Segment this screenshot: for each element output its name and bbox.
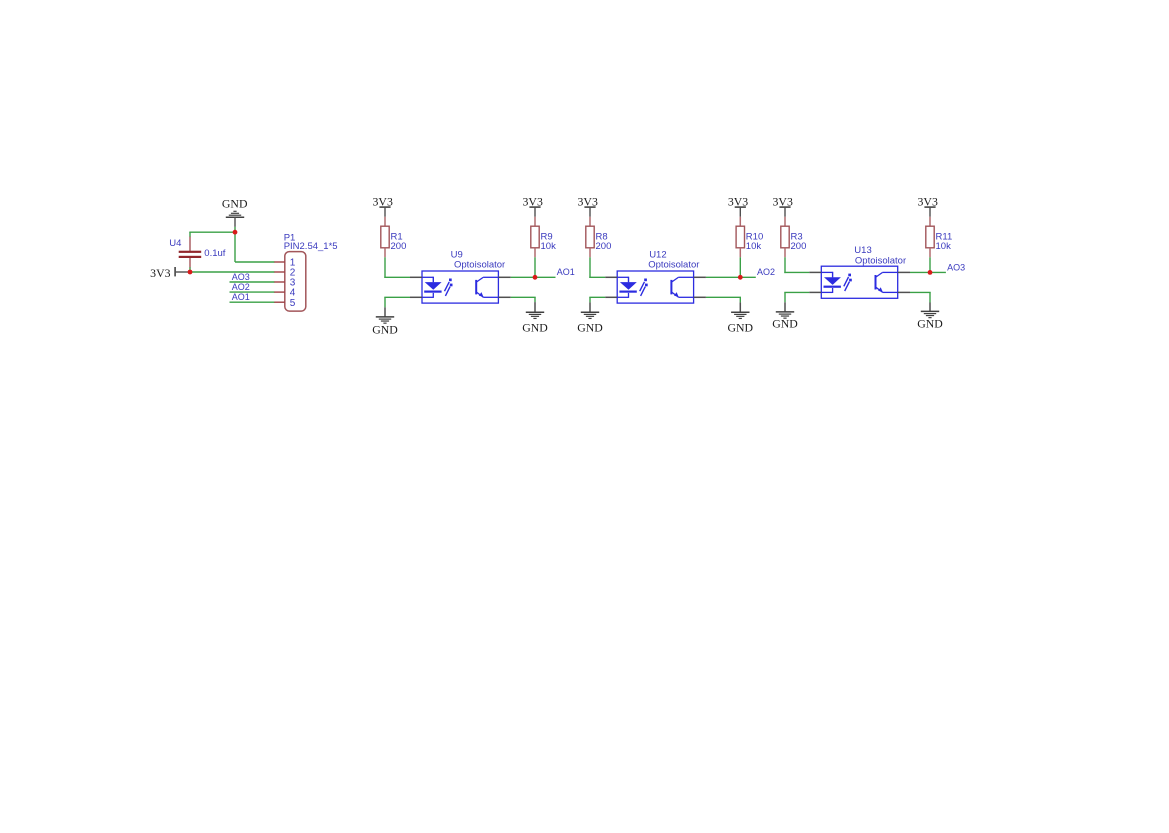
svg-text:10k: 10k: [746, 241, 762, 252]
svg-text:200: 200: [791, 241, 807, 252]
svg-text:3V3: 3V3: [728, 194, 748, 208]
svg-text:AO2: AO2: [757, 267, 775, 277]
svg-text:Optoisolator: Optoisolator: [648, 260, 699, 271]
svg-text:GND: GND: [772, 317, 798, 331]
svg-text:Optoisolator: Optoisolator: [454, 260, 505, 271]
svg-text:AO1: AO1: [557, 267, 575, 277]
svg-text:10k: 10k: [541, 241, 557, 252]
svg-text:AO3: AO3: [947, 263, 965, 273]
svg-text:3V3: 3V3: [918, 194, 938, 208]
svg-text:GND: GND: [222, 197, 248, 211]
svg-text:200: 200: [596, 241, 612, 252]
svg-text:GND: GND: [577, 321, 603, 335]
svg-text:3V3: 3V3: [523, 194, 543, 208]
svg-text:3V3: 3V3: [773, 194, 793, 208]
svg-text:GND: GND: [372, 322, 398, 336]
svg-text:0.1uf: 0.1uf: [204, 248, 225, 259]
svg-text:Optoisolator: Optoisolator: [855, 255, 906, 266]
svg-text:U4: U4: [169, 238, 181, 249]
svg-text:AO1: AO1: [232, 292, 250, 302]
svg-text:GND: GND: [917, 317, 943, 331]
svg-text:10k: 10k: [936, 241, 952, 252]
svg-text:PIN2.54_1*5: PIN2.54_1*5: [284, 241, 338, 252]
svg-text:U13: U13: [854, 245, 871, 256]
svg-text:AO3: AO3: [232, 272, 250, 282]
svg-text:GND: GND: [522, 321, 548, 335]
svg-text:200: 200: [391, 241, 407, 252]
svg-text:AO2: AO2: [232, 282, 250, 292]
svg-text:3V3: 3V3: [373, 194, 393, 208]
svg-text:GND: GND: [728, 321, 754, 335]
svg-text:3V3: 3V3: [578, 194, 598, 208]
svg-text:3V3: 3V3: [150, 266, 170, 280]
svg-text:5: 5: [290, 298, 296, 309]
